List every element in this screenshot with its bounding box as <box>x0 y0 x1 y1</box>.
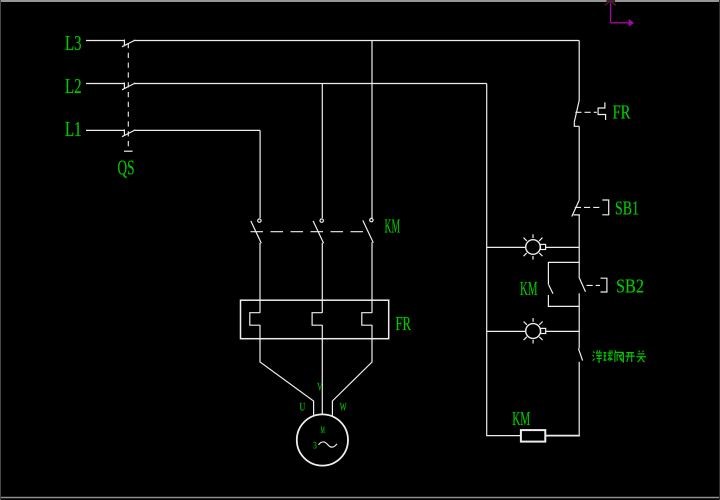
svg-text:W: W <box>340 400 347 414</box>
right rail SB1 to SB2 <box>578 215 580 277</box>
border top <box>0 0 720 2</box>
wire KM pole 1 to FR box <box>259 243 261 313</box>
SB1 pushbutton cap <box>602 200 608 215</box>
FR heater element pole 2 <box>312 313 322 326</box>
right rail SB2 to float switch <box>578 293 580 348</box>
FR NC contact lower terminal <box>574 123 579 127</box>
QS mechanical link dashed <box>127 43 129 151</box>
lamp HL1 wire right <box>546 246 580 248</box>
svg-text:L3: L3 <box>65 31 82 55</box>
right rail float switch to bottom <box>578 362 580 436</box>
lamp HL2 holder tab <box>541 328 546 333</box>
KM main contact pole 2 <box>313 219 324 243</box>
motor tilde wave <box>319 442 337 447</box>
KM coil <box>521 430 545 442</box>
lamp HL2 wire right <box>546 330 580 332</box>
lamp HL1 wire left <box>487 246 526 248</box>
KM main contact pole 3 <box>363 218 374 242</box>
KM aux contact blade <box>549 285 553 294</box>
bottom wire right to coil <box>545 435 580 437</box>
wire L3 stub <box>86 40 125 42</box>
KM mechanical link dashed <box>251 231 368 233</box>
FR thermal release symbol <box>598 102 606 120</box>
KM main contact pole 1 <box>251 219 261 243</box>
FR heater element pole 3 <box>362 313 372 326</box>
border right <box>719 0 720 500</box>
wire FR pole 1 to motor U <box>260 325 314 416</box>
border bottom <box>0 497 720 499</box>
KM aux contact branch bottom <box>548 295 579 306</box>
scale arrow top smudge <box>607 0 616 3</box>
wire KM pole 3 to FR box <box>371 242 373 313</box>
QS link end tick <box>124 150 133 152</box>
SB2 dashed link <box>587 284 601 286</box>
FR thermal relay box <box>241 300 389 339</box>
wire KM pole 2 to FR box <box>321 243 323 313</box>
lamp HL2 circle <box>526 324 541 339</box>
svg-text:KM: KM <box>520 278 538 300</box>
svg-text:M: M <box>321 426 325 436</box>
svg-text:L1: L1 <box>65 117 82 141</box>
KM aux contact branch top <box>548 262 579 284</box>
svg-text:SB2: SB2 <box>616 276 644 298</box>
svg-text:U: U <box>300 400 306 414</box>
svg-text:SB1: SB1 <box>615 198 639 220</box>
SB2 pushbutton cap <box>601 278 607 292</box>
svg-text:V: V <box>317 380 322 394</box>
wire L1 stub <box>86 129 125 131</box>
scale arrow horizontal (magenta) <box>611 22 629 24</box>
svg-text:KM: KM <box>512 408 530 430</box>
svg-text:FR: FR <box>396 313 412 335</box>
svg-text:FR: FR <box>613 102 631 124</box>
svg-text:3: 3 <box>313 442 317 452</box>
disconnect QS pole 1 blade (L3) <box>122 40 135 47</box>
SB2 NO contact blade <box>579 277 586 292</box>
scale arrow head (magenta) <box>629 19 634 27</box>
svg-text:L2: L2 <box>65 74 82 98</box>
wire L3 bus to right rail <box>134 40 580 42</box>
lamp HL2 rays <box>524 318 543 343</box>
left rail <box>487 84 521 436</box>
lamp HL2 wire left <box>487 330 526 332</box>
FR heater element pole 1 <box>250 313 260 326</box>
label float valve switch <box>593 350 646 362</box>
SB1 NC contact blade <box>572 200 579 216</box>
scale arrow vertical (magenta) <box>610 2 612 23</box>
SB1 lower terminal <box>573 215 579 216</box>
disconnect QS pole 3 blade (L1) <box>122 129 135 136</box>
wire FR pole 3 to motor W <box>332 325 372 416</box>
wire L2 bus to left rail corner <box>134 83 487 85</box>
lamp HL1 circle <box>526 240 541 255</box>
lamp HL1 holder tab <box>541 244 546 249</box>
right rail FR to SB1 <box>578 126 580 200</box>
scale arrow faint top head <box>605 1 616 6</box>
float valve switch blade <box>578 348 582 360</box>
wire L1 to contactor drop corner <box>134 129 261 131</box>
wire FR pole 2 to motor V <box>321 325 323 415</box>
wire drop L3 to KM pole 3 <box>371 41 373 219</box>
svg-text:KM: KM <box>385 216 401 238</box>
SB1 dashed link <box>575 206 602 208</box>
right rail top segment <box>578 41 580 101</box>
FR NC contact blade <box>574 100 579 122</box>
wire drop L2 to KM pole 2 <box>321 84 323 219</box>
lamp HL1 rays <box>524 234 543 259</box>
border left <box>0 0 2 500</box>
wire drop L1 to KM pole 1 <box>259 130 261 218</box>
FR contact dashed link <box>575 111 597 113</box>
disconnect QS pole 2 blade (L2) <box>122 83 135 90</box>
svg-text:QS: QS <box>118 156 135 180</box>
motor M circle <box>297 414 348 465</box>
wire L2 stub <box>86 83 125 85</box>
